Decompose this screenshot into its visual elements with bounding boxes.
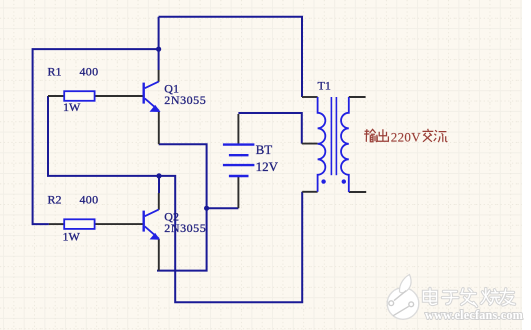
wire feedback from node A to R2 input [33,49,159,224]
wire battery positive to transformer center tap [238,113,301,144]
transformer T1 polarity dot right [342,179,346,183]
输 [364,129,377,142]
wire Q1 collector vertical [158,17,160,70]
transformer T1 secondary winding [341,97,349,192]
transformer T1 pin bottom-right [349,191,366,193]
svg-text:12V: 12V [256,159,279,174]
transistor Q1 collector pin [158,70,160,82]
svg-text:R2: R2 [48,193,62,207]
交 [423,129,434,142]
svg-text:www.elecfans.com: www.elecfans.com [425,308,523,322]
出 [377,129,388,141]
resistor R1 pin left [48,95,64,97]
resistor R2 body [64,219,94,229]
battery BT positive pin [237,114,239,145]
battery BT plates [223,145,255,176]
resistor R2 pin right to Q2 base [95,223,143,225]
node B junction dot [156,173,161,178]
transformer T1 primary winding [318,97,326,192]
wire top rail from Q1 collector node to transformer top-left pin [159,17,302,97]
svg-text:R1: R1 [48,65,62,79]
watermark brand 电子发烧友 [424,289,515,307]
transformer T1 polarity dot left [321,179,325,183]
battery BT negative pin [237,176,239,208]
transistor Q1 emitter pin [158,111,160,145]
transistor Q2 emitter pin [158,239,160,271]
transformer T1 pin bottom-left [302,191,317,193]
resistor R1 body [64,91,94,101]
svg-text:400: 400 [80,193,99,207]
transistor Q2 collector pin [158,193,160,210]
transformer T1 pin top-right [349,96,366,98]
resistor R1 pin right to Q1 base [95,95,143,97]
svg-text:2N3055: 2N3055 [164,93,206,107]
wire node B to bottom rail to transformer bottom-left pin [159,176,302,302]
transformer T1 core [330,97,332,175]
svg-text:1W: 1W [63,100,81,114]
svg-text:BT: BT [256,142,273,157]
transformer T1 pin top-left [302,96,318,98]
resistor R2 pin left [49,223,64,225]
svg-text:400: 400 [80,65,99,79]
wire Q1 emitter to node C to Q2 emitter [157,144,207,270]
svg-text:2N3055: 2N3055 [164,221,206,235]
transistor Q2 symbol [144,210,160,240]
流 [434,130,448,142]
transistor Q1 symbol [144,82,161,112]
output label 输出220V交流 [364,129,447,142]
wire node B to Q2 collector [158,176,160,193]
transformer T1 pin center tap [302,143,318,145]
node C junction dot [204,206,209,211]
wire R1 input to Q2 collector node B [48,96,159,176]
svg-text:220V: 220V [391,129,421,144]
wire node C to battery negative [207,207,239,209]
node A junction dot [156,47,161,52]
watermark logo circle [387,275,419,320]
svg-text:T1: T1 [318,79,331,93]
svg-text:1W: 1W [63,229,81,243]
